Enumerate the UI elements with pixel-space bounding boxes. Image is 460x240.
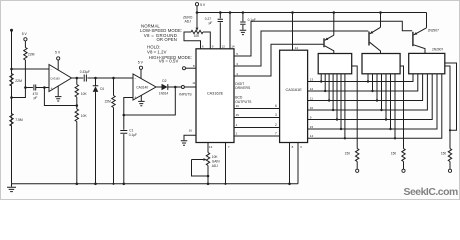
- svg-text:−: −: [51, 68, 53, 72]
- wire (digit line NSD pin5 to Q3 base): [234, 21, 412, 56]
- junction (113.5,78): [112, 77, 115, 80]
- wire (5V down to rail): [196, 6, 198, 13]
- resistor R10 150: [391, 66, 405, 169]
- wire (DS3 side stub to bus6 riser): [445, 63, 457, 130]
- svg-text:ADJ: ADJ: [185, 19, 192, 23]
- wire (DS1 pin 1): [320, 74, 322, 83]
- svg-text:CA3162E: CA3162E: [207, 91, 224, 95]
- svg-text:7: 7: [275, 132, 277, 136]
- svg-text:11: 11: [310, 96, 313, 100]
- IC U4 CA3161E: [280, 50, 308, 142]
- wire (segment bus pin 15): [308, 74, 437, 129]
- wire (5V down to R2): [24, 41, 26, 48]
- capacitor C1 0.1uF: [120, 115, 137, 184]
- svg-text:14: 14: [310, 134, 314, 138]
- resistor R9 150: [345, 66, 359, 169]
- power terminal 5V (input divider): [22, 32, 28, 41]
- wire (U1 ground lead): [57, 86, 59, 96]
- svg-text:22M: 22M: [28, 52, 35, 56]
- svg-text:2N2907: 2N2907: [428, 29, 439, 33]
- svg-text:150: 150: [441, 151, 447, 155]
- svg-text:10: 10: [310, 106, 314, 110]
- svg-text:15: 15: [236, 113, 240, 117]
- svg-text:OUTPUTS: OUTPUTS: [235, 100, 252, 104]
- junction (25.4,87.5): [24, 86, 27, 89]
- junction (11.5,97.5): [10, 96, 13, 99]
- svg-text:10K: 10K: [212, 155, 219, 159]
- wire (cap left lead): [25, 87, 33, 89]
- wire (DS2 pin 5): [385, 74, 387, 121]
- node B (+ input node): [43, 86, 46, 89]
- wire (feedback loop U1): [44, 88, 76, 106]
- resistor R6 22M: [105, 78, 116, 184]
- wire (left input rail x=11.5): [11, 30, 13, 184]
- wire (U1 supply lead): [57, 60, 59, 70]
- ground (below U2): [138, 101, 145, 105]
- junction (76.8,183.8): [76, 183, 79, 186]
- pin 11 label: [192, 81, 195, 85]
- svg-text:CA3140: CA3140: [136, 85, 148, 89]
- svg-text:V8 = 0.5V: V8 = 0.5V: [159, 59, 179, 64]
- display DS2: [362, 54, 400, 74]
- svg-text:14: 14: [295, 46, 299, 50]
- diode D1: [93, 78, 105, 184]
- junction (113.5,183.8): [112, 183, 114, 185]
- svg-text:22M: 22M: [15, 79, 22, 83]
- potentiometer R8 10K GAIN ADJ: [192, 153, 221, 184]
- svg-text:15: 15: [310, 125, 314, 129]
- svg-text:BCD: BCD: [235, 96, 243, 100]
- svg-text:13: 13: [310, 77, 314, 81]
- junction (450,130.2): [449, 129, 451, 131]
- resistor R4 10K: [75, 78, 87, 106]
- power terminal 5V (U2 supply): [138, 61, 144, 70]
- svg-text:D2: D2: [162, 79, 166, 83]
- pin 8 stub U4: [290, 143, 294, 184]
- svg-text:12: 12: [310, 87, 314, 91]
- junction (123.8,183.8): [123, 183, 126, 186]
- svg-text:150: 150: [345, 151, 351, 155]
- svg-text:D1: D1: [100, 87, 104, 91]
- wire (inverting input run y=69): [12, 68, 50, 70]
- pin 16 ground lead: [184, 128, 196, 140]
- wire (segment bus pin 14): [308, 74, 442, 139]
- wire (after 0.33uF): [87, 77, 133, 79]
- wire (DS1 pin 4): [332, 74, 334, 111]
- wire (DS2 pin 3): [376, 74, 378, 102]
- svg-text:11: 11: [192, 81, 195, 85]
- diode D2 1N914: [159, 79, 169, 96]
- IC U3 CA3162E: [196, 49, 234, 143]
- resistor R5 10K: [75, 106, 87, 184]
- svg-text:SeekIC.com: SeekIC.com: [404, 187, 458, 198]
- junction (208,183.8): [207, 183, 210, 186]
- input terminal (open circle): [179, 86, 192, 97]
- transistor Q2 2N2907: [368, 13, 380, 54]
- svg-text:ADJ: ADJ: [212, 164, 218, 168]
- node A (input wire top): [10, 29, 13, 32]
- pin labels U3 top: [202, 45, 235, 49]
- watermark SeekIC.com: [404, 187, 458, 198]
- svg-text:+: +: [51, 87, 53, 91]
- svg-text:5 V: 5 V: [200, 3, 206, 7]
- wire (U2 supply lead): [140, 69, 142, 78]
- wire (cap to + node): [36, 87, 49, 89]
- junction (242.9,12.5): [242, 11, 245, 14]
- ground (below U1): [55, 97, 62, 101]
- svg-text:GAIN: GAIN: [212, 160, 220, 164]
- ground (main rail): [7, 187, 16, 191]
- note (mode text block): [140, 23, 192, 63]
- resistor R11 150: [441, 66, 452, 169]
- svg-text:2: 2: [275, 123, 277, 127]
- junction (220.3,12.5): [219, 11, 222, 14]
- wire (DS2 pin 2): [371, 74, 373, 92]
- svg-text:10K: 10K: [194, 34, 201, 38]
- junction (95.5,183.8): [94, 183, 97, 186]
- pin labels U3 right: [236, 52, 238, 76]
- wire (lower run y=97.5 up to cap node): [12, 88, 26, 98]
- capacitor 0.1uF bypass: [240, 13, 256, 30]
- junction (76.8,78): [76, 77, 79, 80]
- wire (U2 ground lead): [140, 95, 142, 101]
- pin 14 supply stub U4: [293, 13, 299, 51]
- svg-text:10K: 10K: [81, 114, 88, 118]
- transistor Q1 2N2907: [323, 13, 334, 54]
- potentiometer R7 10K ZERO ADJ: [183, 15, 203, 38]
- wire (DS2 pin 7): [394, 74, 396, 140]
- svg-text:3: 3: [275, 113, 277, 117]
- wire (DS2 pin 4): [380, 74, 382, 111]
- svg-text:5 V: 5 V: [55, 51, 61, 55]
- wire (segment bus pin 9): [308, 74, 433, 120]
- svg-text:+: +: [134, 95, 136, 99]
- ground (bypass cap): [240, 30, 247, 34]
- wire (pot left to pin 8): [184, 32, 201, 49]
- svg-text:12: 12: [222, 45, 226, 49]
- wire (BCD bus 16-6): [234, 104, 280, 108]
- display DS3: [409, 53, 445, 73]
- junction (208,176): [207, 175, 210, 178]
- svg-text:INPUTS: INPUTS: [179, 92, 192, 96]
- pin 3 stub U4: [298, 143, 302, 184]
- wire (bottom ground rail): [12, 183, 299, 185]
- wire (input node down to C1 run): [124, 87, 176, 115]
- wire (digit line pin4 to Q1 base): [234, 44, 323, 76]
- wire (BCD bus 15-3): [234, 113, 280, 117]
- svg-text:0.1µF: 0.1µF: [129, 133, 137, 137]
- junction (175.3,87): [174, 86, 177, 89]
- wire (DS1 pin 2): [324, 74, 326, 92]
- wire (U1 output): [72, 77, 84, 79]
- power terminal 5V (U1 supply): [55, 51, 61, 60]
- junction (123.8,115): [123, 114, 126, 117]
- svg-text:C1: C1: [129, 129, 133, 133]
- wire (DS1 pin 7): [344, 74, 346, 140]
- svg-text:470: 470: [33, 92, 39, 96]
- svg-text:−: −: [134, 77, 136, 81]
- wire (DS1 pin 6): [340, 74, 342, 130]
- svg-text:DIGIT: DIGIT: [235, 82, 244, 86]
- terminal (R9): [356, 169, 359, 172]
- wire (top +5V rail): [197, 12, 427, 14]
- svg-text:µF: µF: [209, 21, 213, 25]
- note DIGIT DRIVERS: [235, 82, 251, 90]
- wire (BCD bus 1-2): [234, 123, 280, 127]
- capacitor 0.33uF: [80, 70, 90, 82]
- note BCD OUTPUTS: [235, 96, 252, 104]
- svg-text:LOW-SPEED MODE:: LOW-SPEED MODE:: [140, 28, 182, 33]
- svg-text:150: 150: [391, 151, 397, 155]
- wire (rail ground stub): [11, 184, 13, 187]
- mode select terminal V8 (pin 8): [183, 64, 197, 70]
- op-amp U1 CA3160: [49, 65, 72, 92]
- wire (segment bus pin 11): [308, 74, 423, 101]
- capacitor 470pF: [33, 85, 39, 101]
- wire (DS1 pin 3): [328, 74, 330, 102]
- wire (U2 output): [156, 86, 162, 88]
- transistor Q3 2N2907: [412, 13, 443, 54]
- terminal (R10): [402, 169, 405, 172]
- terminal (R11): [448, 169, 451, 172]
- wire (wiper lead): [196, 13, 198, 28]
- wire (pin 14 line): [229, 13, 231, 49]
- svg-text:0.27: 0.27: [205, 17, 211, 21]
- junction (333.8,12.5): [333, 11, 336, 14]
- svg-text:OR OPEN: OR OPEN: [157, 37, 177, 42]
- svg-text:16: 16: [236, 104, 240, 108]
- svg-text:14: 14: [231, 45, 235, 49]
- wire (segment bus pin 13): [308, 74, 413, 82]
- wire (DS2 pin 6): [389, 74, 391, 130]
- junction (230,12.5): [229, 11, 232, 14]
- svg-text:V8 ≈ 1.2V: V8 ≈ 1.2V: [147, 49, 167, 54]
- display DS1: [318, 54, 352, 74]
- svg-text:1N914: 1N914: [159, 92, 169, 96]
- resistor R3 7.5M: [10, 114, 23, 127]
- wire (diode to IC input): [168, 86, 196, 88]
- svg-text:7.5M: 7.5M: [15, 118, 23, 122]
- wire (BCD bus 2-7): [234, 132, 280, 136]
- op-amp U2 CA3140: [133, 74, 156, 100]
- svg-text:5 V: 5 V: [138, 61, 144, 65]
- svg-text:ZERO: ZERO: [183, 15, 193, 19]
- capacitor 0.27uF on pin 12 line: [205, 13, 223, 49]
- svg-text:HOLD:: HOLD:: [147, 45, 161, 50]
- junction (292.5,12.5): [291, 11, 294, 14]
- svg-text:0.33µF: 0.33µF: [80, 70, 90, 74]
- svg-text:2N2907: 2N2907: [432, 47, 443, 51]
- resistor R1 22M: [10, 74, 22, 87]
- wire (R2 bottom down to cap branch): [24, 60, 26, 88]
- wire (pot right to pin 9): [203, 32, 210, 49]
- junction (95.5,78): [94, 77, 97, 80]
- svg-text:22M: 22M: [105, 100, 112, 104]
- svg-text:13: 13: [209, 145, 213, 149]
- resistor R2 22M: [24, 48, 35, 61]
- power terminal 5V (main): [195, 3, 206, 8]
- svg-text:pF: pF: [34, 96, 38, 100]
- junction (11.5,69): [10, 68, 13, 71]
- ground (pin 16): [181, 141, 188, 145]
- svg-text:5 V: 5 V: [22, 32, 28, 36]
- svg-text:DRIVERS: DRIVERS: [235, 86, 251, 90]
- svg-text:CA3161E: CA3161E: [285, 88, 302, 92]
- junction (197,12.5): [196, 11, 199, 14]
- svg-text:10K: 10K: [81, 92, 88, 96]
- wire (DS2 pin 1): [367, 74, 369, 83]
- svg-text:6: 6: [275, 104, 277, 108]
- wire (digit line pin3 to Q2 base): [234, 31, 368, 66]
- junction (225.5,183.8): [224, 183, 226, 185]
- junction (380.5,12.5): [379, 11, 382, 14]
- wire (U2 lower input): [124, 98, 133, 116]
- junction (76.8,105.5): [76, 104, 79, 107]
- wire (segment bus pin 12): [308, 74, 418, 91]
- svg-text:16: 16: [189, 128, 193, 132]
- junction (289.5,183.8): [288, 183, 291, 186]
- pin 7 ground lead: [226, 143, 230, 184]
- wire (DS1 pin 5): [336, 74, 338, 121]
- pin 13 stub: [208, 143, 213, 153]
- wire (segment bus pin 10): [308, 74, 428, 110]
